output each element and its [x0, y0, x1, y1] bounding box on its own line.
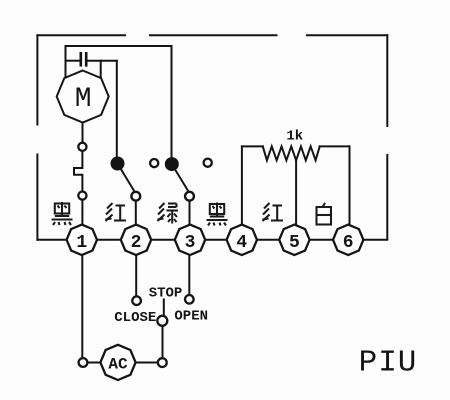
svg-text:M: M: [75, 84, 92, 115]
svg-text:1k: 1k: [286, 129, 303, 145]
svg-text:2: 2: [131, 233, 142, 253]
svg-text:STOP: STOP: [149, 285, 183, 301]
svg-text:1: 1: [76, 233, 87, 253]
svg-text:AC: AC: [108, 355, 128, 373]
svg-text:6: 6: [343, 233, 354, 253]
svg-text:4: 4: [236, 233, 247, 253]
svg-text:OPEN: OPEN: [174, 308, 208, 324]
svg-text:CLOSE: CLOSE: [114, 310, 156, 326]
svg-text:5: 5: [289, 233, 300, 253]
svg-text:3: 3: [185, 233, 196, 253]
svg-text:PIU: PIU: [359, 346, 418, 381]
